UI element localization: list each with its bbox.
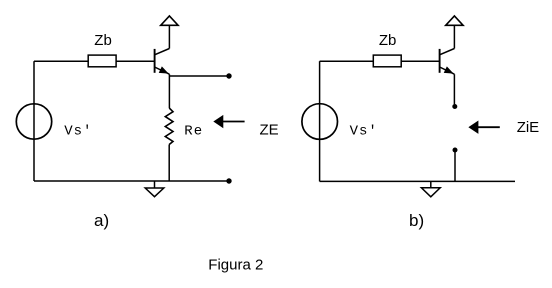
- label ZiE (circuit b): [517, 119, 540, 136]
- node dot bottom rail (circuit a): [226, 178, 231, 183]
- power supply symbol VCC (circuit a): [161, 16, 178, 25]
- label b): [409, 211, 424, 230]
- base wire right segment (circuit a): [116, 60, 155, 62]
- bottom rail wire (circuit a): [34, 180, 229, 182]
- transistor Q2 (circuit b): [440, 49, 455, 75]
- wire VCC to collector (circuit b): [453, 25, 455, 48]
- svg-text:Zb: Zb: [379, 32, 397, 49]
- svg-text:ZiE: ZiE: [517, 119, 540, 136]
- left vertical wire (circuit a): [33, 61, 35, 181]
- svg-text:Vs': Vs': [350, 124, 378, 140]
- emitter vertical wire (circuit a): [168, 74, 170, 108]
- power supply symbol VCC (circuit b): [446, 16, 463, 25]
- svg-text:Figura 2: Figura 2: [208, 257, 263, 274]
- resistor Zb (circuit b): [373, 55, 401, 67]
- label Vs' (circuit b): [350, 124, 378, 140]
- bottom rail wire (circuit b): [320, 180, 515, 182]
- caption Figura 2: [208, 257, 263, 274]
- svg-text:a): a): [94, 211, 109, 230]
- node dot lower open terminal (circuit b): [453, 148, 458, 153]
- label Re (circuit a): [184, 123, 203, 139]
- ground symbol (circuit b): [421, 181, 440, 196]
- ground symbol (circuit a): [145, 181, 164, 197]
- resistor Re (circuit a): [165, 108, 173, 145]
- label a): [94, 211, 109, 230]
- impedance arrow ZiE (circuit b): [469, 121, 500, 132]
- svg-text:b): b): [409, 211, 424, 230]
- svg-text:Zb: Zb: [94, 32, 112, 49]
- base wire left segment (circuit a): [34, 60, 88, 62]
- svg-text:Vs': Vs': [64, 124, 92, 140]
- voltage source Vs' (circuit b): [302, 104, 338, 140]
- wire lower terminal to bottom rail (circuit b): [454, 150, 456, 181]
- emitter vertical wire (circuit b): [453, 74, 455, 104]
- impedance arrow ZE (circuit a): [214, 116, 244, 128]
- label Zb (circuit b): [379, 32, 397, 49]
- svg-text:Re: Re: [184, 123, 203, 139]
- wire Re to bottom rail (circuit a): [168, 145, 170, 182]
- node dot emitter open terminal (circuit b): [452, 104, 457, 109]
- base wire right segment (circuit b): [401, 60, 439, 62]
- svg-text:ZE: ZE: [260, 122, 279, 139]
- label Zb (circuit a): [94, 32, 112, 49]
- label Vs' (circuit a): [64, 124, 92, 140]
- resistor Zb (circuit a): [88, 55, 116, 67]
- wire VCC to collector (circuit a): [168, 25, 170, 48]
- voltage source Vs' (circuit a): [16, 104, 51, 139]
- emitter output wire (circuit a): [169, 75, 229, 77]
- base wire left segment (circuit b): [320, 60, 374, 62]
- transistor Q1 (circuit a): [155, 49, 170, 75]
- left vertical wire (circuit b): [319, 61, 321, 181]
- label ZE (circuit a): [260, 122, 279, 139]
- node dot emitter output (circuit a): [226, 73, 231, 78]
